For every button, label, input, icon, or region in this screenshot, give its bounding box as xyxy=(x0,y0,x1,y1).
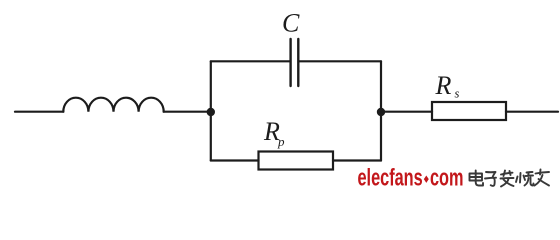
wire top rail right of capacitor xyxy=(299,60,381,62)
node A junction dot xyxy=(207,108,215,116)
wire right vertical branch xyxy=(380,61,382,160)
wire top rail left of capacitor xyxy=(211,60,290,62)
char 烧 xyxy=(516,172,534,186)
resistor Rs xyxy=(432,102,506,120)
watermark 电子发烧友 (hand-drawn strokes) xyxy=(470,170,550,187)
svg-text:R: R xyxy=(435,71,452,100)
wire left vertical branch xyxy=(210,61,212,160)
svg-text:p: p xyxy=(277,134,285,149)
char 子 xyxy=(485,172,496,186)
node B junction dot xyxy=(377,108,385,116)
char 发 xyxy=(501,171,514,187)
wire left lead xyxy=(15,111,63,113)
capacitor C xyxy=(291,39,299,86)
wire right lead xyxy=(506,111,558,113)
char 友 xyxy=(535,170,550,186)
inductor L1 xyxy=(63,98,163,112)
wire bottom rail left of Rp xyxy=(211,159,259,161)
wire bottom rail right of Rp xyxy=(333,159,381,161)
svg-text:C: C xyxy=(282,9,300,38)
char 电 xyxy=(470,171,484,186)
svg-text:elecfans◆com: elecfans◆com xyxy=(358,164,464,191)
svg-text:s: s xyxy=(455,87,460,101)
resistor Rp xyxy=(259,152,334,170)
wire node B to Rs xyxy=(381,111,432,113)
wire inductor to node A xyxy=(164,111,211,113)
watermark elecfans.com xyxy=(358,164,464,191)
